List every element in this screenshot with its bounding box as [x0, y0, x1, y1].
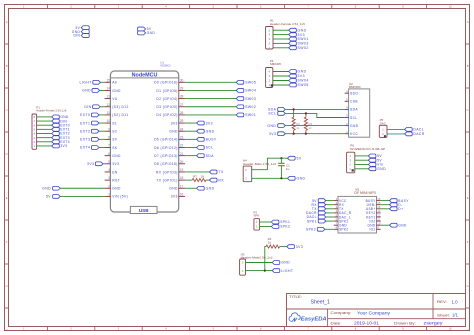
- U1 pin 17 (GND): [169, 184, 185, 190]
- resistor R5 1k (pullup): [292, 109, 300, 133]
- svg-text:1K: 1K: [201, 174, 205, 178]
- net flag EXT3 at U1 pin 8: [80, 137, 104, 141]
- svg-text:RX: RX: [218, 178, 224, 182]
- net flag SW02: [236, 105, 256, 109]
- M1 pin 14 (USB+): [366, 205, 381, 211]
- junction C1 bottom: [280, 177, 282, 179]
- svg-text:GND: GND: [112, 89, 121, 93]
- svg-text:LIGHT: LIGHT: [80, 81, 92, 85]
- U2 pin 6 (SDO): [345, 89, 359, 95]
- P6 pin 1 wire + net flag GND: [349, 167, 386, 171]
- U1 pin 22 (D6 (GPIO12)): [154, 144, 185, 150]
- svg-text:SW05: SW05: [245, 81, 256, 85]
- U1 pin 24 (GND): [169, 127, 185, 133]
- svg-text:Header-Female 2.54_1x8: Header-Female 2.54_1x8: [36, 109, 66, 113]
- P5 pin 2 wire to DACR: [382, 132, 404, 136]
- svg-text:R7: R7: [193, 174, 197, 178]
- svg-text:14: 14: [106, 87, 110, 91]
- svg-text:5V: 5V: [46, 195, 51, 199]
- P1 pin 7 wire + net flag DIN: [33, 119, 67, 123]
- P6 pin 3 wire + net flag 5V: [349, 158, 382, 162]
- P1 pin 8 wire + net flag GND: [33, 115, 68, 119]
- wire U1 pin 29 to SW04: [185, 89, 236, 91]
- net flag SW03: [236, 97, 256, 101]
- svg-text:GND: GND: [281, 261, 290, 265]
- net flag 5V at U1 pin 1: [46, 195, 60, 199]
- U2 pin 3 (SCL): [345, 114, 358, 120]
- U1 pin 16 (3V3): [171, 193, 185, 199]
- svg-text:4: 4: [108, 168, 110, 172]
- capacitor C1 1u: [278, 158, 290, 178]
- net flag SW05: [236, 80, 256, 84]
- net flag 5V (LED strip out): [138, 27, 152, 31]
- svg-text:27: 27: [180, 103, 184, 107]
- net flag 3V3 (BMP280): [269, 132, 285, 136]
- svg-text:SC: SC: [112, 130, 118, 134]
- svg-text:25: 25: [180, 119, 184, 123]
- svg-text:D6 (GPIO12): D6 (GPIO12): [154, 146, 178, 150]
- svg-text:7: 7: [108, 144, 110, 148]
- svg-text:D5 (GPIO14): D5 (GPIO14): [154, 138, 178, 142]
- svg-text:SPK1: SPK1: [307, 219, 317, 223]
- svg-text:1: 1: [108, 193, 110, 197]
- wire U1 pin 19 to TX: [185, 171, 209, 173]
- wire U1 pin 27 to SW02: [185, 106, 236, 108]
- wire H4 pin1 to GND: [252, 177, 288, 179]
- svg-text:EN: EN: [112, 170, 118, 174]
- svg-text:3V3: 3V3: [60, 144, 67, 148]
- U1 pin 13 (VU): [105, 95, 118, 101]
- net flag RX: [209, 178, 224, 182]
- svg-text:3V3: 3V3: [269, 132, 276, 136]
- svg-text:GND: GND: [206, 186, 215, 190]
- net flag SCL at U1 pin 22: [185, 146, 213, 150]
- net flag TX: [209, 170, 224, 174]
- U1 USB connector box: [130, 206, 157, 213]
- P1 pin 4 wire + net flag EXT2: [33, 132, 69, 136]
- svg-text:DF MINI MP3: DF MINI MP3: [354, 191, 376, 195]
- svg-text:GND: GND: [297, 177, 306, 181]
- svg-text:BUSY: BUSY: [206, 138, 217, 142]
- net flag TX at M1 pin 3: [312, 207, 334, 211]
- svg-text:23: 23: [180, 135, 184, 139]
- net flag SDA: [268, 108, 285, 112]
- svg-text:GND: GND: [267, 124, 276, 128]
- svg-text:Sheet:: Sheet:: [437, 313, 450, 317]
- M1 pin 16 (BUSY): [366, 197, 381, 203]
- svg-text:GND: GND: [147, 31, 156, 35]
- net flag DACL: [405, 128, 424, 132]
- connector P5 DAC: [379, 118, 387, 137]
- svg-text:A: A: [6, 20, 8, 24]
- U1 pin 12 ((S3) D12): [105, 103, 129, 109]
- M1 pin 11 (IO2): [369, 217, 380, 223]
- svg-text:SW02: SW02: [245, 105, 256, 109]
- svg-text:VCC: VCC: [350, 132, 358, 136]
- U1 pin 10 (S1): [105, 119, 118, 125]
- svg-text:EXT4: EXT4: [80, 146, 90, 150]
- svg-text:13: 13: [106, 95, 110, 99]
- svg-text:19: 19: [180, 168, 184, 172]
- M1 pin 1 (VCC): [334, 197, 347, 203]
- U1 pin 29 (D1 (GPIO5)): [156, 87, 185, 93]
- H1 pin 5 wire + net flag GND: [268, 28, 306, 32]
- net flag EXT0 at U1 pin 11: [80, 113, 104, 117]
- U1 pin 21 (D7 (GPIO13)): [154, 152, 185, 158]
- svg-text:3V3: 3V3: [296, 245, 303, 249]
- svg-text:12: 12: [106, 103, 110, 107]
- U1 pin 4 (EN): [105, 168, 118, 174]
- wire R1 right to 3V3: [280, 246, 287, 248]
- net flag GND (H4): [288, 176, 306, 180]
- P5 pin 1 wire to DACL: [382, 128, 404, 132]
- svg-text:NODEMCU: NODEMCU: [160, 64, 171, 68]
- svg-text:10: 10: [106, 119, 110, 123]
- svg-text:SK: SK: [112, 146, 118, 150]
- svg-text:SCL: SCL: [350, 116, 358, 120]
- M1 pin 4 (DAC_R): [334, 209, 352, 215]
- wire U1 pin1 to 5V: [60, 195, 104, 197]
- svg-text:D4 (GPIO2): D4 (GPIO2): [156, 113, 177, 117]
- U1 pin 20 (D8 (GPIO15)): [154, 160, 185, 166]
- svg-text:GND: GND: [377, 167, 386, 171]
- U2 pin 4 (SDA): [345, 106, 359, 112]
- svg-text:SPK2: SPK2: [339, 228, 348, 232]
- M1 pin 7 (GND): [334, 222, 348, 228]
- svg-text:3V3: 3V3: [171, 121, 178, 125]
- svg-text:E: E: [6, 196, 8, 200]
- svg-text:GND: GND: [112, 187, 121, 191]
- svg-text:EXT3: EXT3: [80, 138, 90, 142]
- svg-text:D1 (GPIO5): D1 (GPIO5): [156, 89, 177, 93]
- P6 pin1 marker dot: [352, 169, 354, 171]
- P2 pin 1 wire to SPK2: [260, 225, 291, 229]
- wire H4 pin2 to 5V: [252, 158, 288, 170]
- svg-text:Header-Male2.54_1x2: Header-Male2.54_1x2: [241, 255, 273, 259]
- svg-text:VU: VU: [112, 97, 118, 101]
- svg-text:SPK2: SPK2: [280, 225, 290, 229]
- net flag EXT1 at U1 pin 10: [80, 121, 104, 125]
- svg-text:5: 5: [108, 160, 110, 164]
- svg-text:SW05: SW05: [298, 83, 309, 87]
- P6 pin 2 wire + net flag Vin: [349, 163, 383, 167]
- net flag SCL: [268, 112, 285, 116]
- svg-text:SM0405: SM0405: [270, 62, 282, 66]
- resistor R1 1k: [266, 237, 280, 248]
- net flag GND at U1 pin 2: [42, 186, 60, 190]
- wire U1 pin 26 to SW01: [185, 114, 236, 116]
- M1 pin 8 (SPK2): [334, 226, 349, 232]
- svg-text:1k: 1k: [268, 241, 272, 245]
- svg-text:17: 17: [180, 184, 184, 188]
- net flag SPK2 at M1 pin 8: [306, 227, 334, 231]
- svg-text:6: 6: [108, 152, 110, 156]
- U1 pin 30 (D0 (GPIO16)): [154, 78, 185, 84]
- svg-text:G: G: [6, 284, 8, 288]
- P5 pin1 marker dot: [384, 135, 386, 137]
- svg-text:3V3: 3V3: [112, 162, 119, 166]
- wire R1 left vertical to LIGHT net: [265, 247, 266, 271]
- svg-text:H: H: [467, 328, 469, 332]
- svg-text:1/1: 1/1: [452, 312, 458, 317]
- net flag 5V (LED strip in): [75, 26, 89, 30]
- svg-text:3V3: 3V3: [206, 121, 213, 125]
- junction R6 top: [305, 112, 307, 114]
- P1 pin 3 wire + net flag EXT3: [33, 136, 69, 140]
- svg-text:18: 18: [180, 176, 184, 180]
- U1 pin 7 (SK): [105, 144, 118, 150]
- P1 pin 2 wire + net flag EXT4: [33, 140, 69, 144]
- net flag GND at M1 pin 10: [381, 223, 407, 227]
- svg-text:Header-Female 2.54_1x5: Header-Female 2.54_1x5: [270, 22, 305, 26]
- svg-text:DACL: DACL: [413, 128, 424, 132]
- svg-text:1.0: 1.0: [452, 300, 459, 305]
- svg-text:LIGHT: LIGHT: [281, 269, 293, 273]
- svg-text:Your Company: Your Company: [357, 310, 391, 315]
- svg-text:2019-10-01: 2019-10-01: [354, 320, 380, 325]
- svg-text:GND: GND: [112, 154, 121, 158]
- U1 pin 14 (GND): [105, 87, 121, 93]
- svg-text:DIN: DIN: [73, 34, 80, 38]
- svg-text:3V3: 3V3: [298, 33, 306, 37]
- wire U1 pin 30 to SW05: [185, 81, 236, 83]
- svg-text:Drawn By:: Drawn By:: [394, 321, 416, 325]
- wire GND to U2 pin 2: [285, 125, 344, 127]
- svg-text:SW03: SW03: [298, 42, 309, 46]
- U1 pin 11 ((S2) D11): [105, 111, 129, 117]
- M1 pin 13 (KEY2): [366, 209, 381, 215]
- svg-text:26: 26: [180, 111, 184, 115]
- svg-text:GND: GND: [206, 129, 215, 133]
- svg-text:SCL: SCL: [268, 112, 276, 116]
- svg-text:SDA: SDA: [206, 154, 215, 158]
- wire U1 pin2 to GND: [60, 187, 104, 189]
- svg-text:Sheet_1: Sheet_1: [311, 300, 330, 306]
- wire SDA to U2 pin 4: [285, 108, 344, 110]
- svg-text:9: 9: [108, 127, 110, 131]
- svg-text:H: H: [6, 328, 8, 332]
- svg-text:TITLE:: TITLE:: [289, 295, 302, 299]
- svg-text:SW04: SW04: [245, 89, 256, 93]
- svg-text:RX (GPIO3): RX (GPIO3): [156, 170, 178, 174]
- svg-text:Date:: Date:: [331, 321, 342, 325]
- U1 pin 15 (A0): [105, 78, 118, 84]
- M1 pin 5 (DAC_L): [334, 213, 351, 219]
- svg-text:GND: GND: [398, 223, 407, 227]
- U1 pin 19 (RX (GPIO3)): [156, 168, 185, 174]
- svg-text:TX: TX: [218, 170, 224, 174]
- svg-text:(S2) D11: (S2) D11: [112, 113, 128, 117]
- net flag SPK1 at M1 pin 6: [307, 219, 334, 223]
- net flag GND (H3): [272, 261, 290, 265]
- svg-text:SPK2: SPK2: [306, 228, 316, 232]
- junction R5 top: [293, 108, 295, 110]
- net flag GND at U1 pin 14: [82, 89, 104, 93]
- resistor R7 1K: [185, 174, 209, 181]
- svg-text:3V3: 3V3: [171, 195, 178, 199]
- net flag EXT4 at U1 pin 7: [80, 146, 104, 150]
- junction R5 bottom: [293, 133, 295, 135]
- svg-text:DAC: DAC: [380, 121, 387, 125]
- svg-text:1u: 1u: [286, 167, 290, 171]
- svg-text:zsergey: zsergey: [424, 320, 444, 325]
- net flag SW01: [236, 113, 256, 117]
- svg-text:EXT2: EXT2: [80, 129, 90, 133]
- connector P2 SPK: [253, 210, 259, 230]
- svg-text:SPK: SPK: [253, 214, 259, 218]
- svg-text:GND: GND: [42, 186, 51, 190]
- svg-text:SPK1: SPK1: [280, 220, 290, 224]
- net flag 5V (H4): [288, 156, 302, 160]
- svg-text:A0: A0: [112, 81, 117, 85]
- op-amp n/a: component U1 NodeMCU body: [110, 61, 178, 212]
- svg-text:GND: GND: [350, 124, 359, 128]
- svg-text:CSB: CSB: [350, 100, 358, 104]
- net flag 5V at M1 pin 1: [312, 199, 334, 203]
- net flag DACR at M1 pin 4: [306, 211, 334, 215]
- svg-text:D: D: [6, 152, 8, 156]
- svg-text:B: B: [467, 64, 469, 68]
- svg-text:15: 15: [106, 78, 110, 82]
- title block: [287, 294, 466, 327]
- P6 pin 4 wire + net flag 5V: [349, 154, 382, 158]
- net flag D+ at M1 pin 14: [381, 207, 404, 211]
- net flag GND at U1 pin 17: [185, 186, 214, 190]
- U1 pin 23 (D5 (GPIO14)): [154, 135, 185, 141]
- IC U2 BMP280: [349, 82, 370, 137]
- wire H3 pin2 to GND: [246, 262, 273, 264]
- wire SCL to U2 pin 3: [285, 113, 344, 117]
- net flag 3V3 at U1 pin 25: [185, 121, 213, 125]
- svg-text:WJ2EDGVC-5.08-4P: WJ2EDGVC-5.08-4P: [350, 147, 385, 151]
- connector H3 Header-Male2.54_1x2: [240, 252, 273, 275]
- U1 pin 26 (D4 (GPIO2)): [156, 111, 185, 117]
- M1 pin 6 (SPK1): [334, 217, 349, 223]
- U1 pin 2 (GND): [105, 184, 121, 190]
- U1 pin 28 (D2 (GPIO4)): [156, 95, 185, 101]
- svg-text:SW01: SW01: [298, 37, 309, 41]
- IC M1 DF MINI MP3: [338, 188, 377, 233]
- svg-text:REV:: REV:: [437, 300, 447, 304]
- H1 pin 1 wire + net flag SW02: [268, 46, 308, 50]
- connector H4 Header-Male 2.54_1x2: [243, 158, 276, 181]
- net flag DACR: [405, 132, 425, 136]
- H1 pin 2 wire + net flag SW03: [268, 42, 308, 46]
- P1 pin 5 wire + net flag EXT1: [33, 127, 69, 131]
- svg-text:(S3) D12: (S3) D12: [112, 105, 128, 109]
- P4 pin 4 wire + net flag GND: [268, 70, 306, 74]
- svg-text:3V3: 3V3: [87, 162, 94, 166]
- svg-text:21: 21: [180, 152, 184, 156]
- P4 pin 2 wire + net flag SW04: [268, 79, 308, 83]
- svg-text:B: B: [6, 64, 8, 68]
- svg-text:SW01: SW01: [245, 113, 256, 117]
- svg-text:RST: RST: [112, 178, 120, 182]
- U2 pin 5 (CSB): [345, 98, 359, 104]
- svg-text:C: C: [467, 108, 469, 112]
- svg-text:A: A: [467, 20, 469, 24]
- U1 pin 27 (D3 (GPIO0)): [156, 103, 185, 109]
- net flag SW04: [236, 89, 256, 93]
- svg-text:20: 20: [180, 160, 184, 164]
- M1 pin 12 (KEY1): [366, 213, 381, 219]
- net flag EXT2 at U1 pin 9: [80, 129, 104, 133]
- net flag BUSY at M1 pin 16: [381, 199, 410, 203]
- H1 pin 3 wire + net flag SW01: [268, 37, 308, 41]
- svg-text:SW02: SW02: [298, 46, 309, 50]
- net flag BUSY at U1 pin 23: [185, 137, 217, 141]
- svg-text:GND: GND: [169, 187, 178, 191]
- net flag RX at M1 pin 2: [312, 203, 334, 207]
- U1 pin 5 (3V3): [105, 160, 120, 166]
- svg-text:30: 30: [180, 78, 184, 82]
- svg-text:E: E: [467, 196, 469, 200]
- net flag LIGHT at U1 pin 15: [80, 80, 105, 84]
- M1 pin 15 (USB-): [367, 201, 381, 207]
- svg-text:VIN (5V): VIN (5V): [112, 195, 128, 199]
- svg-text:5V: 5V: [297, 156, 302, 160]
- svg-text:D3 (GPIO0): D3 (GPIO0): [156, 105, 177, 109]
- U1 pin 25 (3V3): [171, 119, 185, 125]
- svg-text:GND: GND: [82, 89, 91, 93]
- svg-text:GND: GND: [298, 70, 307, 74]
- svg-text:C: C: [6, 108, 8, 112]
- svg-text:S0: S0: [112, 138, 117, 142]
- net flag 3V3 at U1 pin 5: [87, 162, 105, 166]
- connector P6 WJ2EDGVC-5.08-4P: [347, 143, 386, 172]
- svg-text:SDA: SDA: [350, 108, 358, 112]
- svg-text:2: 2: [108, 184, 110, 188]
- U1 pin 8 (S0): [105, 135, 118, 141]
- svg-text:24: 24: [180, 127, 184, 131]
- svg-text:SW03: SW03: [245, 97, 256, 101]
- P4 pin 1 wire + net flag SW05: [268, 83, 308, 87]
- svg-text:EXT0: EXT0: [80, 113, 90, 117]
- net flag 3V3 (R1): [287, 245, 303, 249]
- svg-text:28: 28: [180, 95, 184, 99]
- P4 pin 3 wire + net flag 3V3: [268, 74, 305, 78]
- net flag GND at U1 pin 24: [185, 129, 214, 133]
- U1 pin 18 (TX (GPIO1)): [156, 176, 185, 182]
- P2 pin 2 wire to SPK1: [260, 220, 291, 224]
- svg-text:11: 11: [107, 111, 111, 115]
- svg-text:S1: S1: [112, 121, 117, 125]
- net flag DACL at M1 pin 5: [307, 215, 334, 219]
- connector H1 Header-Female 2.54_1x5: [266, 18, 306, 49]
- net flag GND (BMP280): [267, 124, 285, 128]
- svg-text:29: 29: [180, 87, 184, 91]
- connector P1 Header-Female 2.54_1x8: [32, 105, 67, 149]
- svg-text:22: 22: [180, 144, 184, 148]
- svg-text:D: D: [467, 152, 469, 156]
- U1 pin 6 (GND): [105, 152, 121, 158]
- svg-text:G: G: [467, 284, 469, 288]
- net flag GND (LED strip out): [138, 31, 156, 35]
- H1 pin 4 wire + net flag 3V3: [268, 33, 305, 37]
- svg-text:EXT1: EXT1: [80, 121, 90, 125]
- svg-text:EasyEDA: EasyEDA: [301, 316, 327, 322]
- svg-text:D0 (GPIO16): D0 (GPIO16): [154, 81, 178, 85]
- svg-text:3V3: 3V3: [298, 74, 306, 78]
- svg-text:D8 (GPIO15): D8 (GPIO15): [154, 162, 178, 166]
- svg-text:DACR: DACR: [413, 132, 424, 136]
- net flag LIGHT (H3): [272, 269, 293, 273]
- wire 3V3 to U2 pin 1: [285, 133, 344, 135]
- svg-text:Header-Male 2.54_1x2: Header-Male 2.54_1x2: [243, 162, 276, 166]
- net flag DIN at U1 pin 12: [84, 105, 104, 109]
- net flag SDA at U1 pin 21: [185, 154, 214, 158]
- P1 pin 1 wire + net flag 3V3: [33, 144, 67, 148]
